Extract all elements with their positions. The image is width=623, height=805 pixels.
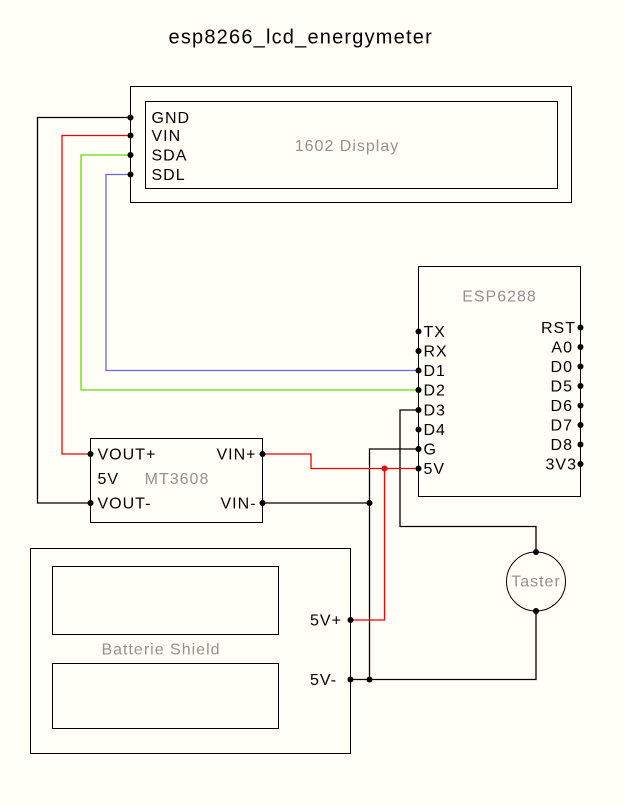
pin RX (ESP6288): [416, 344, 448, 361]
ESP6288 module body: [419, 267, 581, 497]
push button S1 Taster body: [507, 552, 566, 611]
svg-text:1602 Display: 1602 Display: [295, 138, 400, 155]
pin D2 (ESP6288): [416, 383, 446, 400]
wire D3 to Taster pin1 (black): [400, 410, 536, 552]
pin D8 (ESP6288): [551, 437, 584, 454]
svg-text:VOUT+: VOUT+: [98, 447, 157, 464]
svg-text:D4: D4: [424, 422, 446, 439]
svg-text:VIN-: VIN-: [221, 496, 257, 513]
junction 5V net (red): [382, 466, 388, 472]
svg-text:SDL: SDL: [152, 167, 186, 184]
junction 5V- net (black): [367, 677, 373, 683]
svg-text:D6: D6: [551, 398, 573, 415]
pin A0 (ESP6288): [551, 340, 583, 357]
pin D7 (ESP6288): [551, 418, 584, 435]
svg-text:TX: TX: [424, 324, 446, 341]
pin 5V- (Batterie Shield): [310, 672, 354, 689]
svg-text:VIN: VIN: [152, 128, 182, 145]
pin D4 (ESP6288): [416, 422, 446, 439]
wire GND: display GND to MT3608 VOUT- (black): [38, 118, 131, 504]
pin D0 (ESP6288): [551, 359, 584, 376]
Batterie Shield module body: [31, 549, 351, 754]
wire SDA: display SDA to ESP D2 (green): [81, 155, 419, 390]
svg-text:5V: 5V: [98, 471, 120, 488]
pin 2 (Taster bottom): [533, 608, 539, 614]
pin SDA (1602 Display): [128, 148, 188, 165]
svg-text:D1: D1: [424, 363, 446, 380]
svg-text:D5: D5: [551, 379, 573, 396]
pin VIN+ (MT3608): [216, 447, 265, 464]
svg-text:RST: RST: [541, 320, 576, 337]
pin GND (1602 Display): [128, 110, 191, 127]
svg-text:D0: D0: [551, 359, 573, 376]
svg-text:ESP6288: ESP6288: [462, 289, 537, 306]
svg-text:D8: D8: [551, 437, 573, 454]
svg-text:VIN+: VIN+: [216, 447, 256, 464]
pin VIN (1602 Display): [128, 128, 182, 145]
wire SDL: display SDL to ESP D1 (blue): [106, 175, 419, 371]
svg-text:D2: D2: [424, 383, 446, 400]
svg-text:VOUT-: VOUT-: [98, 496, 152, 513]
pin D3 (ESP6288): [416, 403, 446, 420]
wire VIN- to G net (black): [263, 502, 370, 504]
svg-text:RX: RX: [424, 344, 448, 361]
svg-text:GND: GND: [152, 110, 191, 127]
pin D5 (ESP6288): [551, 379, 584, 396]
wire 5V net to Batterie Shield 5V+ (red): [351, 469, 385, 621]
junction VIN- / G net (black): [367, 500, 373, 506]
pin 5V (ESP6288): [416, 461, 446, 478]
pin D1 (ESP6288): [416, 363, 446, 380]
pin VOUT- (MT3608): [88, 496, 152, 513]
pin RST (ESP6288): [541, 320, 584, 337]
wire VIN: display VIN to MT3608 VOUT+ (red): [62, 136, 131, 455]
pin SDL (1602 Display): [128, 167, 186, 184]
svg-text:D7: D7: [551, 418, 573, 435]
1602 Display module body: [131, 87, 572, 203]
svg-text:Batterie Shield: Batterie Shield: [101, 641, 220, 658]
svg-text:D3: D3: [424, 403, 446, 420]
svg-text:MT3608: MT3608: [145, 471, 210, 488]
svg-text:G: G: [424, 442, 437, 459]
svg-text:esp8266_lcd_energymeter: esp8266_lcd_energymeter: [169, 27, 433, 49]
wire G to 5V- net (black): [370, 449, 419, 680]
pin VIN- (MT3608): [221, 496, 266, 513]
pin 1 (Taster top): [533, 549, 539, 555]
svg-text:A0: A0: [551, 340, 573, 357]
wire Taster pin2 to Batterie Shield 5V- (black): [351, 611, 537, 680]
MT3608 module body: [91, 439, 263, 523]
svg-text:5V: 5V: [424, 461, 446, 478]
pin VOUT+ (MT3608): [88, 447, 157, 464]
pin G (ESP6288): [416, 442, 437, 459]
svg-text:5V-: 5V-: [310, 672, 337, 689]
svg-text:5V+: 5V+: [310, 613, 342, 630]
pin D6 (ESP6288): [551, 398, 584, 415]
pin 3V3 (ESP6288): [546, 457, 584, 474]
pin TX (ESP6288): [416, 324, 446, 341]
pin 5V+ (Batterie Shield): [310, 613, 354, 630]
svg-text:Taster: Taster: [511, 573, 561, 590]
wire VIN+ to ESP 5V (red): [263, 454, 419, 469]
svg-text:3V3: 3V3: [546, 457, 577, 474]
svg-text:SDA: SDA: [152, 148, 188, 165]
